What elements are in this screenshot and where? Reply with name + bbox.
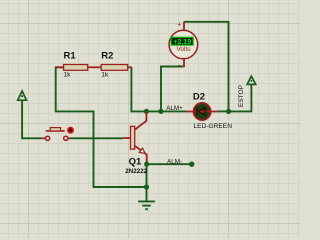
svg-text:ALM-: ALM-: [167, 158, 182, 165]
power terminal (left): [18, 91, 27, 100]
ESTOP terminal: [238, 76, 256, 107]
svg-text:R2: R2: [101, 51, 113, 62]
node ALM- junction: [144, 162, 149, 167]
svg-text:+2.19: +2.19: [173, 37, 191, 46]
svg-text:1k: 1k: [101, 71, 109, 78]
node ALM- terminal dot: [189, 162, 194, 167]
svg-text:+: +: [177, 22, 181, 29]
svg-text:Q1: Q1: [129, 157, 142, 168]
svg-text:R1: R1: [64, 51, 77, 62]
svg-text:2N2222: 2N2222: [125, 168, 148, 175]
LED D2: [186, 92, 232, 131]
transistor Q1: [123, 113, 148, 176]
svg-text:1k: 1k: [64, 71, 72, 78]
node ESTOP junction: [226, 109, 231, 114]
wire LED to ESTOP node: [218, 110, 229, 112]
svg-text:ALM+: ALM+: [166, 105, 183, 112]
wire ALM- node to ground node: [146, 164, 148, 187]
ground: [138, 187, 155, 209]
svg-text:D2: D2: [193, 92, 205, 103]
wire power to button: [22, 100, 41, 138]
node collector junction: [144, 109, 149, 114]
wire emitter to ALM- node: [146, 161, 148, 165]
wire voltmeter plus: [184, 22, 229, 112]
wire node to ESTOP terminal: [229, 84, 252, 111]
wire collector node to LED: [146, 110, 186, 112]
wire voltmeter minus: [161, 67, 184, 112]
svg-text:LED-GREEN: LED-GREEN: [194, 123, 233, 130]
resistor R2: [101, 51, 132, 79]
node ground junction: [144, 184, 149, 189]
wire ALM-: [147, 163, 192, 165]
svg-text:ESTOP: ESTOP: [238, 85, 245, 107]
wire button to transistor base: [70, 137, 124, 139]
node voltmeter junction: [158, 109, 163, 114]
push button: [42, 127, 74, 141]
voltmeter: [169, 22, 198, 70]
svg-text:Volts: Volts: [176, 46, 191, 53]
svg-text:-: -: [178, 61, 181, 70]
wire R2-right to collector node: [131, 67, 146, 111]
resistor R1: [56, 51, 101, 79]
wire R1-left to ground rail: [56, 67, 147, 187]
